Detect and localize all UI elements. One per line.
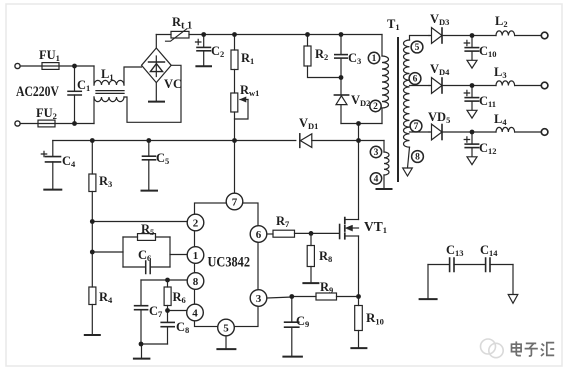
output terminal 2 [541, 82, 548, 89]
capacitor C10 [471, 36, 473, 48]
AC input terminal bottom [15, 121, 20, 126]
transistor Q1 VT1 mosfet [339, 225, 341, 239]
wire gate [295, 232, 340, 234]
capacitor C9 [291, 297, 293, 322]
output terminal 3 [541, 129, 548, 136]
resistor R1 [234, 35, 236, 51]
bridge rectifier VC [142, 48, 172, 83]
AC input terminal top [15, 63, 20, 68]
junction dots [72, 64, 77, 69]
watermark text dianzihui [511, 341, 554, 356]
capacitor C12 [471, 132, 473, 144]
transformer T1 auxiliary winding [383, 141, 385, 153]
capacitor C1 [74, 66, 76, 91]
svg-text:3: 3 [256, 293, 262, 305]
wire pin3 [268, 297, 292, 299]
svg-text:4: 4 [192, 308, 198, 320]
svg-text:3: 3 [374, 148, 379, 158]
wire source [358, 236, 360, 297]
op-amp U1 UC3842 box [195, 203, 259, 327]
resistor R4 [91, 252, 93, 287]
svg-text:8: 8 [193, 276, 199, 288]
diode VD2 [340, 78, 342, 96]
wire pin2 [92, 221, 187, 223]
svg-text:4: 4 [374, 175, 379, 185]
lower bus wire [53, 140, 384, 142]
resistor R3 [91, 141, 93, 175]
svg-text:5: 5 [223, 323, 229, 335]
svg-text:VC: VC [164, 77, 182, 91]
wire sec top tap [410, 36, 430, 41]
svg-text:8: 8 [415, 153, 420, 163]
output terminal 1 [541, 32, 548, 39]
svg-text:AC220V: AC220V [16, 84, 59, 100]
resistor R8 [310, 233, 312, 245]
resistor R2 [307, 35, 309, 47]
IC pin circles [187, 193, 267, 336]
diode VD1 [299, 134, 301, 148]
svg-text:2: 2 [193, 218, 199, 230]
svg-text:7: 7 [414, 122, 419, 132]
wire [59, 65, 94, 67]
wire pin8 [141, 279, 187, 281]
capacitor C7 [140, 280, 142, 305]
transformer terminal circles [368, 41, 423, 184]
ground pin5 [225, 336, 227, 349]
wire + ground [141, 343, 168, 345]
resistor R9 [316, 293, 337, 300]
diode VD3 [429, 28, 442, 44]
ground aux [377, 188, 392, 190]
thermistor Rt1 [156, 34, 171, 36]
diode VD4 [429, 78, 442, 94]
wire primary bottom [341, 123, 382, 125]
resistor R5 / capacitor C6 parallel [92, 251, 123, 253]
fuse FU1 [42, 63, 59, 70]
main DC bus wire [189, 34, 382, 36]
capacitor C2 (electrolytic) [203, 35, 205, 47]
svg-text:2: 2 [373, 102, 378, 112]
resistor R10 [358, 297, 360, 306]
wire sec mid tap [410, 85, 430, 87]
wire [55, 123, 94, 125]
svg-text:5: 5 [415, 43, 420, 53]
resistor R7 [267, 233, 273, 235]
svg-text:6: 6 [256, 229, 262, 241]
wire sec tap3 [410, 131, 430, 133]
wire rail1 [442, 35, 496, 37]
wire drain [358, 124, 360, 220]
wire rail3 [442, 131, 496, 133]
diode VD5 [429, 124, 442, 140]
capacitor C5 [148, 141, 150, 156]
svg-text:UC3842: UC3842 [208, 255, 251, 271]
wire pin4 [168, 310, 187, 312]
capacitor C8 [161, 321, 174, 323]
inductor L1 (common-mode choke) [93, 66, 95, 85]
wire [20, 65, 42, 67]
watermark logo [481, 339, 504, 358]
wire [20, 123, 38, 125]
capacitor C13 / C14 series [428, 264, 449, 266]
capacitor C3 [340, 35, 342, 55]
inductor L3 [496, 81, 515, 86]
fuse FU2 [38, 120, 55, 127]
transformer T1 primary winding [381, 35, 383, 57]
capacitor C11 [471, 86, 473, 98]
inductor L2 [496, 31, 515, 36]
inductor L4 [496, 127, 515, 132]
svg-text:7: 7 [232, 197, 238, 209]
transformer T1 secondary winding [404, 40, 410, 147]
svg-text:6: 6 [413, 75, 418, 85]
resistor R6 [167, 280, 169, 287]
wire pin7 vcc [234, 141, 236, 194]
T1 core [397, 38, 399, 181]
potentiometer Rw1 [231, 93, 238, 112]
capacitor C4 (electrolytic) [52, 141, 54, 157]
svg-text:1: 1 [193, 250, 199, 262]
svg-text:1: 1 [372, 54, 377, 64]
wire sec bottom + arrow ground [408, 147, 410, 168]
wire rail2 [442, 85, 496, 87]
